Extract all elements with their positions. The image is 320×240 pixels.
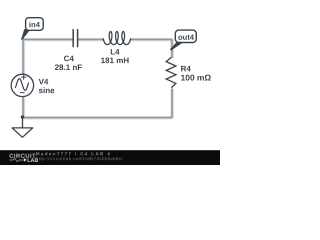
voltage source V4 circle bbox=[11, 74, 33, 96]
CircuitLab logo wordmark bbox=[9, 154, 35, 158]
capacitor C4 plates bbox=[73, 30, 77, 47]
flag out4 tail bbox=[171, 42, 181, 49]
value sine bbox=[39, 87, 54, 93]
ground symbol triangle bbox=[12, 128, 33, 137]
footer bar bbox=[0, 150, 220, 165]
footer text line 1 bbox=[36, 152, 110, 155]
V4 plus sign bbox=[21, 75, 26, 79]
V4 minus sign bbox=[20, 92, 24, 94]
dark schematic ink bbox=[11, 18, 196, 138]
value 181 mH bbox=[101, 58, 128, 64]
logo sine squiggle bbox=[10, 159, 24, 162]
V4 sine symbol bbox=[15, 79, 28, 91]
wires: soft gray layered strokes bbox=[23, 39, 172, 117]
flag out4 text bbox=[178, 35, 194, 40]
logo LAB text bbox=[28, 158, 38, 162]
flag in4 tail bbox=[22, 30, 28, 39]
flag in4 text bbox=[29, 22, 39, 28]
logo LAB arrow mark bbox=[24, 158, 27, 162]
flag out4 box bbox=[175, 30, 196, 42]
footer text line 2 bbox=[36, 157, 123, 161]
resistor R4 zigzag bbox=[166, 57, 176, 88]
value 28.1 nF bbox=[55, 64, 82, 70]
label R4 bbox=[181, 66, 191, 72]
label C4 bbox=[64, 56, 74, 62]
junction dot bottom-left node bbox=[21, 115, 25, 119]
ground stem bbox=[22, 117, 24, 128]
value 100 mOhm bbox=[181, 75, 211, 81]
label L4 bbox=[111, 49, 120, 55]
label V4 bbox=[39, 79, 49, 85]
inductor L4 coil bbox=[103, 32, 130, 45]
flag in4 box bbox=[26, 18, 44, 31]
